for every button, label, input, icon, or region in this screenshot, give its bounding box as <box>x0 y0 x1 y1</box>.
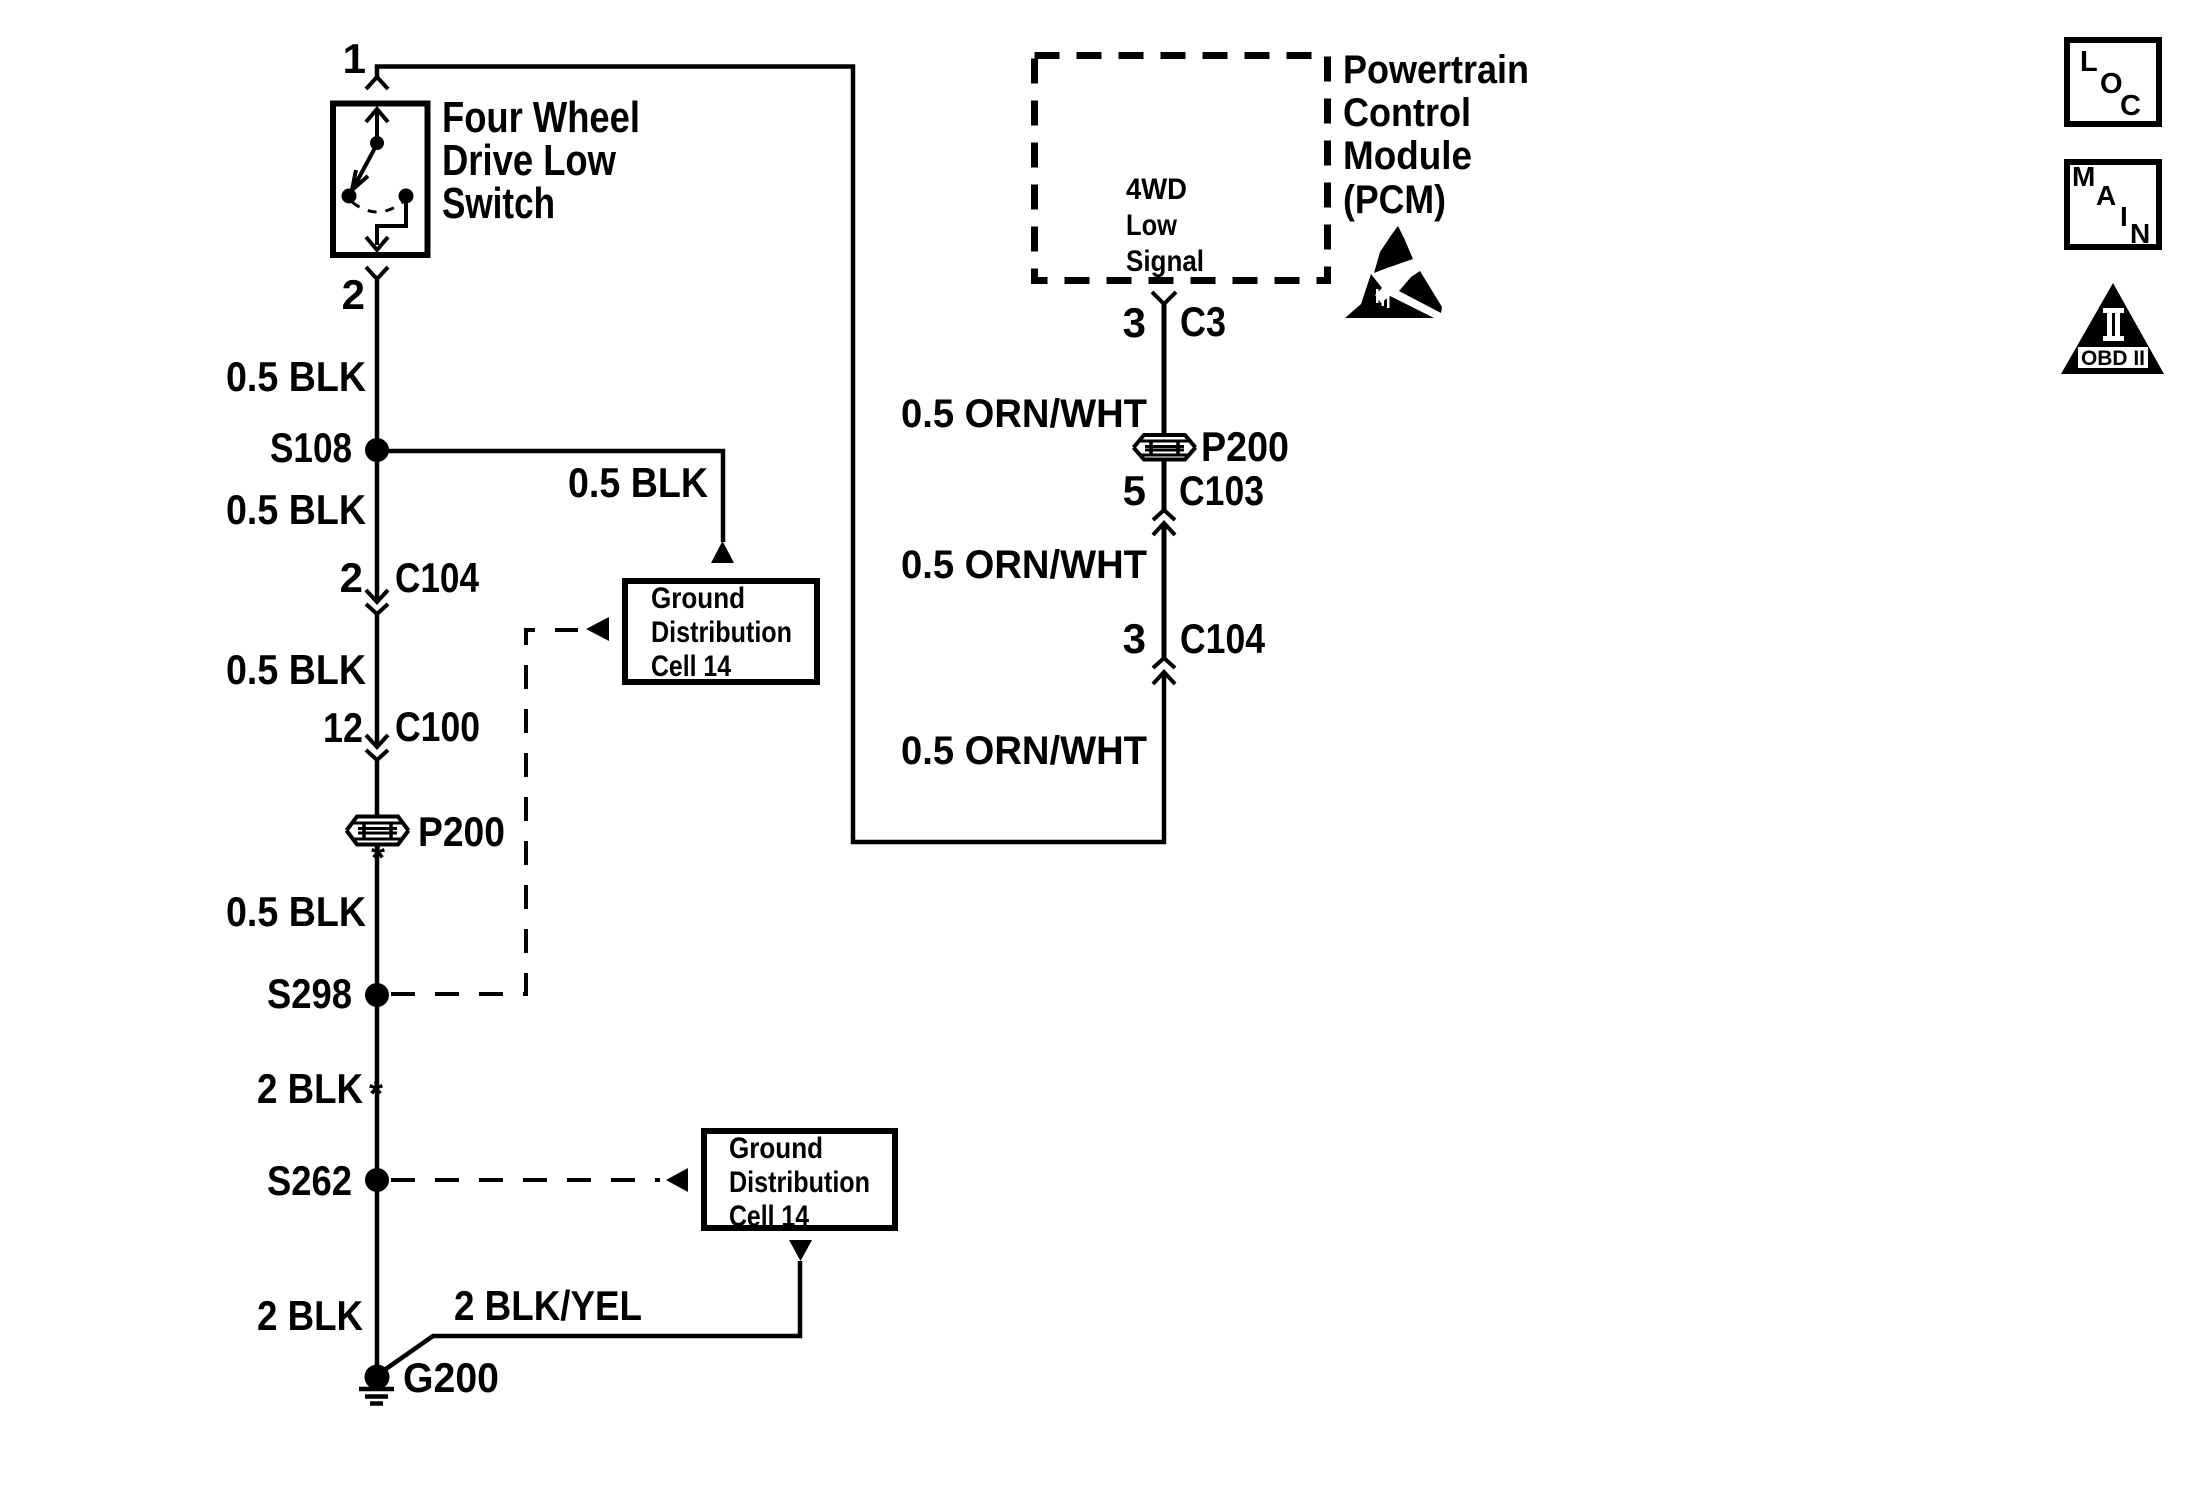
svg-text:Four Wheel: Four Wheel <box>442 93 640 142</box>
wire S298 to S262 <box>375 995 380 1180</box>
switch pin 1 connector <box>366 77 388 89</box>
connector C103 <box>1153 510 1175 535</box>
triangle arrow into box1 <box>711 541 734 563</box>
wire C104 to C100 <box>375 614 380 747</box>
ESD symbol <box>1345 226 1442 318</box>
svg-text:1: 1 <box>343 35 366 82</box>
node S262 <box>365 1168 389 1192</box>
svg-text:4WD: 4WD <box>1126 173 1187 206</box>
svg-text:3: 3 <box>1123 615 1146 662</box>
svg-text:M: M <box>2072 161 2095 192</box>
LOC reference box <box>2067 40 2159 124</box>
switch arm with arrowhead <box>354 144 377 187</box>
svg-text:Signal: Signal <box>1126 245 1204 278</box>
svg-text:*: * <box>369 1073 383 1114</box>
svg-text:P200: P200 <box>418 808 505 855</box>
OBD II symbol <box>2061 283 2164 374</box>
svg-text:0.5 BLK: 0.5 BLK <box>226 353 366 400</box>
switch pivot dot <box>370 136 384 150</box>
switch lower output path <box>377 203 406 245</box>
svg-text:*: * <box>371 837 385 878</box>
node S108 <box>365 438 389 462</box>
svg-text:C3: C3 <box>1180 298 1226 345</box>
svg-text:2: 2 <box>342 271 365 318</box>
svg-text:P200: P200 <box>1201 423 1289 470</box>
svg-text:Powertrain: Powertrain <box>1343 48 1529 92</box>
svg-text:OBD II: OBD II <box>2081 347 2145 370</box>
svg-text:0.5 ORN/WHT: 0.5 ORN/WHT <box>901 729 1147 773</box>
svg-text:0.5 BLK: 0.5 BLK <box>568 459 708 506</box>
svg-text:C: C <box>2120 90 2141 122</box>
switch upper contact arrow <box>375 111 379 143</box>
svg-text:Distribution: Distribution <box>729 1166 870 1199</box>
svg-text:0.5 ORN/WHT: 0.5 ORN/WHT <box>901 392 1147 436</box>
connector C104 left <box>366 590 388 614</box>
triangle arrow at box2 <box>666 1168 688 1192</box>
svg-text:2: 2 <box>340 554 363 601</box>
svg-text:Module: Module <box>1343 134 1472 178</box>
wire P200 to S298 <box>375 845 380 995</box>
svg-text:0.5 ORN/WHT: 0.5 ORN/WHT <box>901 543 1147 587</box>
svg-text:G200: G200 <box>403 1354 499 1401</box>
svg-text:Ground: Ground <box>729 1132 823 1165</box>
box1 ground distribution cell 14 <box>625 581 817 682</box>
connector C100 <box>366 735 388 760</box>
wire S262 to G200 <box>375 1180 380 1372</box>
switch left contact dot <box>342 189 357 204</box>
wire P200 to C103 <box>1162 460 1167 510</box>
svg-text:0.5 BLK: 0.5 BLK <box>226 486 366 533</box>
svg-text:2 BLK: 2 BLK <box>257 1065 363 1112</box>
triangle arrow at box1 <box>586 617 609 641</box>
svg-text:S108: S108 <box>270 424 352 471</box>
switch right contact dot <box>399 189 414 204</box>
wire S108 branch to ground distribution triangle <box>377 451 723 542</box>
wire C3 to P200 <box>1162 304 1167 434</box>
svg-text:0.5 BLK: 0.5 BLK <box>226 888 366 935</box>
svg-text:C100: C100 <box>395 703 480 750</box>
wire C100 to P200 <box>375 760 380 816</box>
svg-text:S262: S262 <box>267 1157 352 1204</box>
svg-text:Control: Control <box>1343 91 1471 135</box>
svg-text:Ground: Ground <box>651 582 745 615</box>
grommet P200 right <box>1134 435 1196 460</box>
svg-text:C104: C104 <box>395 554 480 601</box>
switch dashed travel arc <box>352 202 403 212</box>
wire main loop pin1 to PCM pin3 <box>377 67 1164 843</box>
wire pin2 to S108 <box>375 280 380 451</box>
svg-text:C103: C103 <box>1179 467 1264 514</box>
svg-text:Cell 14: Cell 14 <box>729 1200 809 1233</box>
svg-text:Drive Low: Drive Low <box>442 136 617 185</box>
wire 2 BLK/YEL from box2 triangle to G200 <box>383 1261 800 1371</box>
MAIN reference box <box>2067 162 2159 247</box>
wire S108 to C104 <box>375 451 380 602</box>
four wheel drive low switch U1 box <box>333 104 428 256</box>
grommet P200 left <box>347 817 409 845</box>
svg-text:(PCM): (PCM) <box>1343 178 1446 222</box>
connector C3 <box>1152 292 1176 304</box>
dashed link S262 to box2 <box>391 1178 660 1182</box>
PCM dashed box <box>1035 56 1328 281</box>
svg-text:L: L <box>2080 46 2098 78</box>
ground G200 <box>365 1365 390 1390</box>
svg-text:I: I <box>2120 201 2128 232</box>
svg-text:3: 3 <box>1123 299 1146 346</box>
svg-text:12: 12 <box>323 704 363 751</box>
svg-text:Distribution: Distribution <box>651 616 792 649</box>
svg-text:5: 5 <box>1123 467 1146 514</box>
svg-text:2 BLK/YEL: 2 BLK/YEL <box>454 1282 642 1329</box>
svg-text:A: A <box>2096 180 2116 211</box>
svg-text:C104: C104 <box>1180 615 1266 662</box>
dashed link S298 to box1 <box>391 630 578 994</box>
svg-text:2 BLK: 2 BLK <box>257 1292 363 1339</box>
svg-text:Switch: Switch <box>442 179 555 228</box>
switch pin 2 connector <box>366 267 388 282</box>
svg-text:Cell 14: Cell 14 <box>651 650 731 683</box>
wire C103 to C104 <box>1162 523 1167 658</box>
node S298 <box>365 983 389 1007</box>
connector C104 right <box>1153 658 1175 684</box>
svg-text:S298: S298 <box>267 970 352 1017</box>
box2 ground distribution cell 14 <box>704 1131 895 1228</box>
svg-text:N: N <box>2130 218 2150 249</box>
svg-text:Low: Low <box>1126 209 1178 242</box>
svg-text:0.5 BLK: 0.5 BLK <box>226 646 366 693</box>
triangle arrow below box2 <box>789 1240 812 1261</box>
